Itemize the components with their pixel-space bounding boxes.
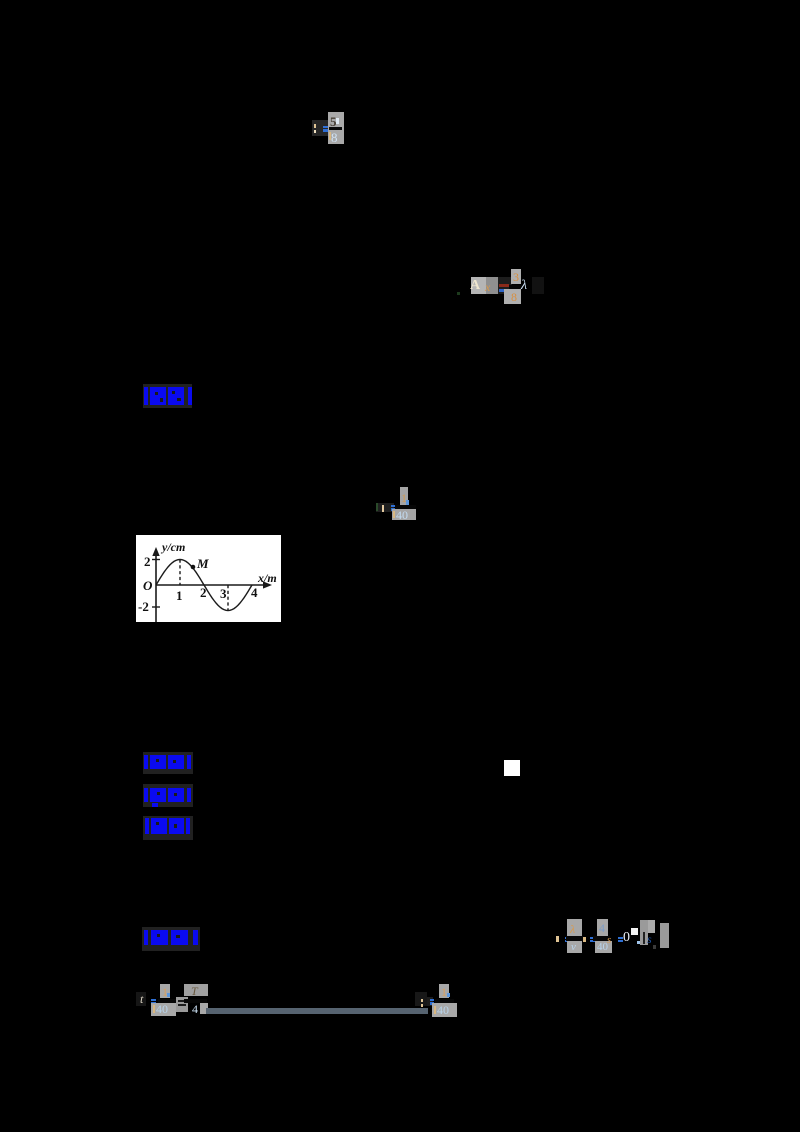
dashed line at x=1 (peak) [179,560,181,586]
svg-text:O: O [143,578,153,593]
svg-text:4: 4 [251,585,258,600]
small white square marker [504,760,520,776]
formula fragment "f = 1/40" [376,503,394,512]
long slate-gray divider bar [206,1008,428,1014]
blue label 1 (answer tag) [143,384,192,408]
x-axis [156,584,265,586]
waveform graph image (y/cm vs x/m) [136,535,281,622]
option A fragment "A. x = 3/8 lambda" [471,277,491,294]
y-axis [155,553,157,622]
formula "t = 1/40" (right) [415,992,427,1006]
formula "T = lambda/v = 4/40 s = 0.1s" [556,936,559,942]
svg-text:x/m: x/m [257,571,277,585]
blue label 5 (solution tag) [142,927,200,951]
svg-text:M: M [196,556,209,571]
svg-text:2: 2 [144,554,151,569]
point M dot [191,565,196,570]
sine wave curve [156,560,252,611]
formula "t = 1/40 = T/4" [136,992,146,1006]
dashed line at x=3 (trough) [227,585,229,611]
svg-text:1: 1 [176,588,183,603]
svg-text:2: 2 [200,585,207,600]
blue label 2 (exam-point tag) [143,752,193,774]
formula fragment "t = 5/8" [312,120,328,136]
y ticks [152,559,160,561]
svg-text:-2: -2 [138,599,149,614]
blue label 3 (topic tag) [143,784,193,807]
svg-text:y/cm: y/cm [160,540,185,554]
svg-text:3: 3 [220,586,227,601]
blue label 4 (analysis tag) [143,816,193,840]
